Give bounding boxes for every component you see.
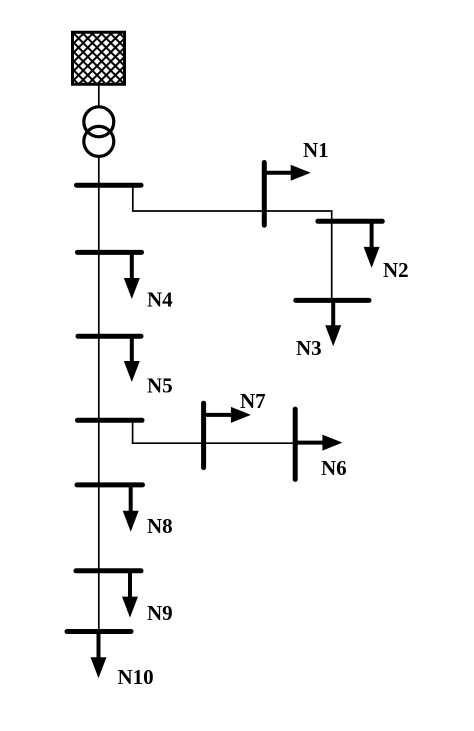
svg-text:N8: N8 xyxy=(147,514,173,538)
svg-text:N1: N1 xyxy=(303,138,329,162)
svg-text:N5: N5 xyxy=(147,374,173,398)
svg-text:N9: N9 xyxy=(147,601,173,625)
svg-text:N3: N3 xyxy=(296,336,322,360)
svg-text:N2: N2 xyxy=(383,258,409,282)
svg-text:N10: N10 xyxy=(118,665,154,689)
svg-text:N6: N6 xyxy=(321,456,347,480)
svg-text:N7: N7 xyxy=(240,389,266,413)
svg-text:N4: N4 xyxy=(147,288,173,312)
